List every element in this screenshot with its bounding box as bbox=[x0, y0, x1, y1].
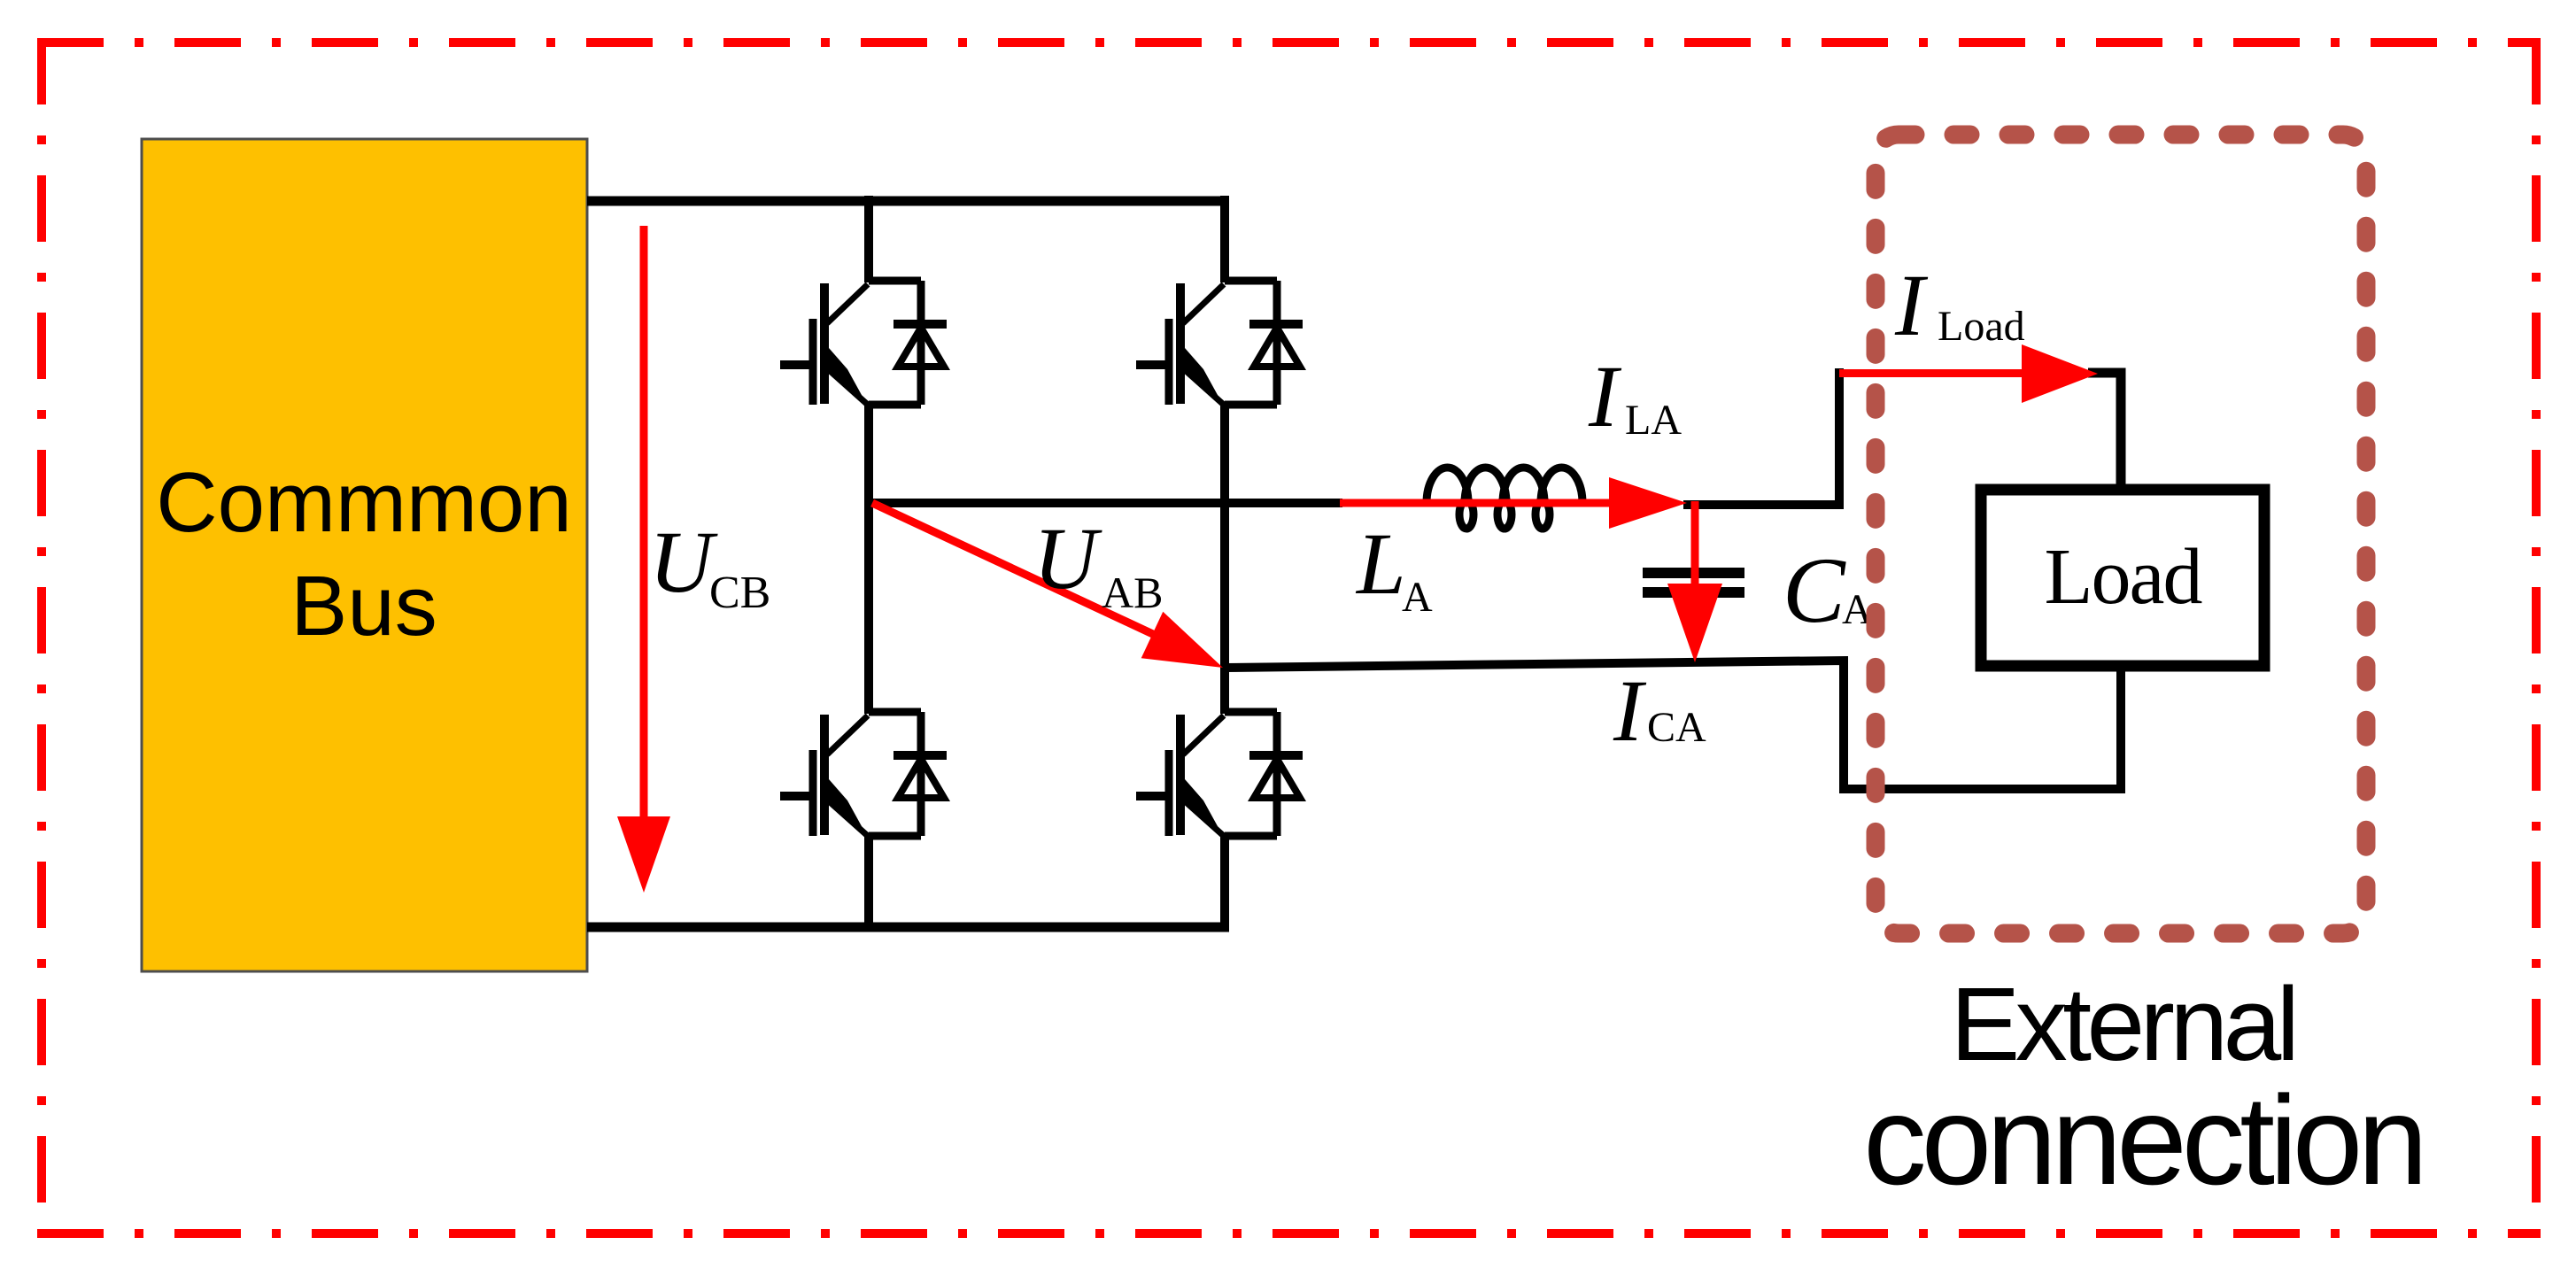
wire: phase A after inductor arrow bbox=[1683, 368, 1839, 505]
svg-text:CB: CB bbox=[709, 568, 770, 618]
voltage arrow U_AB bbox=[870, 499, 1223, 668]
inductor LA coil bbox=[1427, 468, 1582, 529]
svg-text:I: I bbox=[1613, 661, 1647, 760]
svg-text:Load: Load bbox=[1938, 303, 2025, 350]
wire: right leg middle segment (node B) bbox=[1220, 403, 1229, 714]
wire: phase B output (node B to external) bbox=[1225, 661, 2121, 789]
wire: phase A output (node A to inductor) bbox=[869, 499, 1342, 507]
svg-text:C: C bbox=[1783, 538, 1846, 642]
voltage arrow U_CB bbox=[617, 226, 670, 893]
current arrow I_LA bbox=[1340, 477, 1687, 529]
svg-text:U: U bbox=[649, 513, 718, 611]
svg-text:A: A bbox=[1402, 574, 1433, 621]
svg-text:I: I bbox=[1588, 347, 1622, 445]
capacitor CA plates bbox=[1643, 568, 1744, 578]
transistor Q2 (top-right IGBT) bbox=[1136, 281, 1303, 406]
common bus block bbox=[142, 139, 587, 971]
transistor Q4 (bottom-right IGBT) bbox=[1136, 712, 1303, 837]
svg-text:Bus: Bus bbox=[290, 559, 437, 653]
svg-text:Load: Load bbox=[2045, 533, 2202, 621]
current arrow I_Load bbox=[1839, 344, 2098, 403]
svg-text:L: L bbox=[1355, 514, 1406, 613]
load box bbox=[1981, 490, 2264, 666]
svg-text:AB: AB bbox=[1102, 568, 1163, 617]
wire: top DC bus bbox=[587, 197, 1229, 206]
transistor Q3 (bottom-left IGBT) bbox=[780, 712, 947, 837]
svg-text:External: External bbox=[1951, 966, 2295, 1083]
svg-text:CA: CA bbox=[1647, 704, 1706, 751]
svg-text:I: I bbox=[1894, 256, 1929, 354]
wire: left leg emitter segment bbox=[864, 834, 873, 932]
wire: right leg emitter segment bbox=[1220, 834, 1229, 932]
wire: load top connection bbox=[2088, 373, 2121, 490]
current arrow I_CA (capacitor branch) bbox=[1667, 501, 1722, 662]
wire: bottom DC bus bbox=[587, 923, 1229, 932]
transistor Q1 (top-left IGBT) bbox=[780, 281, 947, 406]
svg-text:Commmon: Commmon bbox=[156, 455, 571, 550]
wire: right leg collector segment bbox=[1220, 196, 1229, 282]
svg-text:LA: LA bbox=[1625, 397, 1682, 444]
svg-text:U: U bbox=[1033, 509, 1102, 607]
node A (left leg midpoint junction) bbox=[864, 499, 873, 507]
node B (right leg midpoint junction) bbox=[1220, 663, 1229, 672]
wire: left leg collector segment bbox=[864, 196, 873, 282]
wire: left leg middle segment (node A) bbox=[864, 403, 873, 714]
external connection boundary (brown dashed box) bbox=[1876, 135, 2366, 933]
svg-text:connection: connection bbox=[1863, 1071, 2423, 1211]
